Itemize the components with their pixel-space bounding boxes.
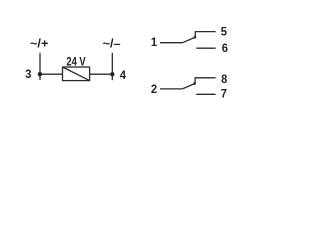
pin 7 label bbox=[221, 88, 227, 100]
switch S2 lever tip bbox=[193, 82, 196, 85]
switch S2 lever bbox=[182, 84, 195, 89]
switch contact S2 pin 2 label bbox=[151, 84, 157, 96]
wire terminal3 to terminal4 bbox=[40, 73, 112, 75]
svg-text:1: 1 bbox=[151, 37, 158, 49]
terminal 3 label bbox=[25, 69, 32, 81]
junction node 3 bbox=[38, 72, 42, 76]
wire from ~/+ down to terminal 3 bbox=[39, 53, 41, 80]
node ~/+ bbox=[30, 37, 48, 51]
contact 8 tick and wire bbox=[195, 78, 216, 84]
junction node 4 bbox=[110, 72, 114, 76]
svg-text:24 V: 24 V bbox=[66, 56, 86, 69]
terminal 4 label bbox=[120, 70, 127, 82]
svg-text:6: 6 bbox=[222, 43, 229, 55]
pin 5 label bbox=[221, 26, 228, 38]
contact 7 wire bbox=[196, 93, 215, 95]
switch S1 lever tip bbox=[193, 36, 196, 39]
contact 6 wire bbox=[196, 47, 215, 49]
wire common pole 2 bbox=[160, 88, 182, 90]
value label 24 V bbox=[66, 56, 86, 69]
switch contact S1 pin 1 label bbox=[151, 37, 158, 49]
node ~/- bbox=[103, 37, 121, 51]
svg-text:~/+: ~/+ bbox=[30, 37, 48, 51]
coil K1 (relay coil box) bbox=[63, 67, 90, 81]
contact 5 tick and wire bbox=[195, 32, 215, 38]
wire common pole 1 bbox=[160, 42, 183, 44]
switch S1 lever bbox=[183, 37, 196, 42]
svg-text:4: 4 bbox=[120, 70, 127, 82]
pin 6 label bbox=[222, 43, 229, 55]
svg-text:2: 2 bbox=[151, 84, 157, 96]
svg-text:5: 5 bbox=[221, 26, 228, 38]
pin 8 label bbox=[221, 74, 228, 86]
svg-text:~/–: ~/– bbox=[103, 37, 121, 51]
wire from ~/- down to terminal 4 bbox=[111, 53, 113, 80]
svg-text:8: 8 bbox=[221, 74, 228, 86]
svg-text:3: 3 bbox=[25, 69, 32, 81]
svg-text:7: 7 bbox=[221, 88, 227, 100]
coil K1 diagonal bbox=[63, 67, 90, 81]
